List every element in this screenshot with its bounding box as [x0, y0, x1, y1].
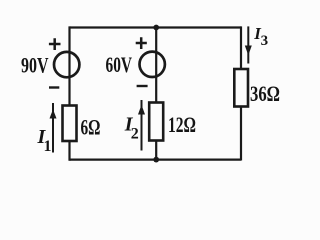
voltage source V2 60V circle	[140, 52, 165, 77]
wire: bottom horizontal	[70, 159, 242, 161]
wire: right branch vertical	[240, 26, 242, 160]
current arrow I1	[52, 103, 54, 153]
V2 plus sign	[136, 37, 147, 49]
svg-text:36Ω: 36Ω	[250, 81, 280, 106]
current arrow I2	[141, 100, 143, 151]
wire: left branch vertical	[68, 26, 70, 160]
wire: middle branch vertical	[155, 28, 157, 160]
svg-text:2: 2	[131, 126, 139, 143]
svg-text:12Ω: 12Ω	[168, 112, 196, 137]
node: top junction dot	[153, 25, 159, 31]
V1 minus sign	[49, 86, 59, 88]
current arrow I3	[247, 26, 249, 63]
svg-text:6Ω: 6Ω	[81, 114, 101, 139]
svg-text:1: 1	[44, 138, 52, 155]
svg-text:90V: 90V	[21, 53, 49, 78]
svg-text:3: 3	[261, 33, 269, 49]
voltage source V1 90V circle	[54, 52, 79, 77]
resistor R2 12ohm body	[149, 103, 163, 141]
V2 minus sign	[137, 85, 148, 87]
node: bottom junction dot	[153, 157, 159, 163]
resistor R3 36ohm body	[234, 69, 248, 107]
svg-text:60V: 60V	[106, 52, 133, 77]
resistor R1 6ohm body	[63, 106, 77, 142]
wire: top horizontal	[70, 26, 242, 28]
V1 plus sign	[49, 38, 61, 50]
